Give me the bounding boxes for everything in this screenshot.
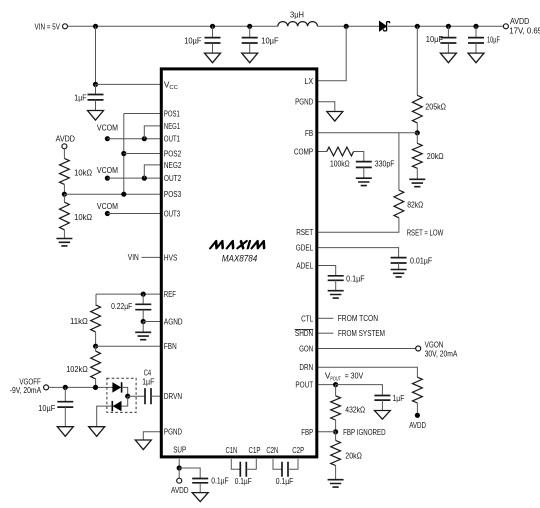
capacitor C4 1uF [145,388,151,404]
svg-text:102kΩ: 102kΩ [66,364,88,374]
wire SUP to AVDD [178,468,180,478]
svg-text:10µF: 10µF [487,35,500,45]
svg-text:PGND: PGND [295,97,313,107]
wire R1 stem top [416,26,418,95]
svg-text:OUT1: OUT1 [164,134,180,144]
capacitor C12 0.1uF [328,276,344,281]
svg-text:MAX8784: MAX8784 [222,254,258,265]
wire NEG2 loop [144,165,160,178]
ground C12 [328,291,344,298]
ground PGND left [135,440,151,450]
svg-text:82kΩ: 82kΩ [407,200,423,210]
wire VCC to pin [96,83,161,85]
wire rail diode to AVDD [388,25,504,27]
junction SUP node [177,465,182,470]
resistor R8 10k [60,158,70,184]
ground C15 [57,427,73,437]
diode D1 schottky [379,21,386,31]
svg-text:FROM TCON: FROM TCON [338,313,378,323]
ground C5 [205,53,221,63]
svg-text:30V, 20mA: 30V, 20mA [425,349,458,359]
svg-text:VCOM: VCOM [97,165,118,175]
junction rail-C6 [247,24,252,29]
capacitor C10 330pF [356,162,372,168]
junction rail-C8 [473,24,478,29]
junction AGND node [141,319,146,324]
svg-text:POS3: POS3 [164,189,182,199]
ground C6 [242,53,258,63]
svg-text:POS2: POS2 [164,149,182,159]
svg-text:FBP IGNORED: FBP IGNORED [343,427,386,437]
wire C6 gnd stem [249,43,251,53]
resistor R4 82k [394,190,404,218]
wire OUT3 [107,213,160,215]
svg-text:0.01µF: 0.01µF [410,255,432,265]
wire R10 stem top [95,294,97,305]
svg-text:OUT3: OUT3 [164,209,181,219]
wire PGND left [143,432,160,440]
wire C7 stem [447,26,449,37]
terminal VIN [63,24,68,29]
svg-text:HVS: HVS [164,252,178,262]
wire FB [318,132,418,134]
svg-text:VIN = 5V: VIN = 5V [35,21,61,31]
junction VGOFF-C15 [63,385,68,390]
junction VCC node [93,82,98,87]
ground C10 [356,178,372,185]
wire R9 stem top [63,194,65,202]
wire C14 to AGND [142,310,144,322]
wire R9 gnd stem [63,230,65,239]
capacitor C8 10uF [468,38,484,43]
wire R6 stem top [335,385,337,396]
junction rail-C7 [446,24,451,29]
svg-text:POUT: POUT [330,376,341,382]
wire SHDN [318,332,334,334]
wire C2P stem [288,459,298,469]
svg-text:NEG2: NEG2 [164,160,182,170]
wire LX to rail [318,26,347,81]
wire POS2 [124,153,160,155]
junction NEG1-OUT1 [142,136,147,141]
ground C8 [468,53,484,63]
junction FBP node [333,429,338,434]
wire D3 cathode to gnd [97,406,113,427]
ground R2 [409,179,425,186]
capacitor C7 10uF [440,38,456,43]
wire C12 gnd stem [335,280,337,290]
terminal AVDD SUP [177,478,182,483]
junction FB node [415,130,420,135]
wire R3 to C10 [354,152,364,162]
svg-text:100kΩ: 100kΩ [330,159,350,169]
box dashed diode pair [107,378,136,412]
wire C15 stem [64,387,66,401]
svg-text:3µH: 3µH [290,10,304,20]
svg-text:205kΩ: 205kΩ [425,101,446,111]
svg-text:POUT: POUT [295,380,313,390]
wire C9 stem bottom [95,100,97,111]
svg-text:= 30V: = 30V [345,371,364,381]
capacitor C15 10uF [57,402,73,407]
svg-text:11kΩ: 11kΩ [70,316,88,326]
wire NEG1 loop [144,126,160,139]
wire R10 to FBN [95,332,97,346]
capacitor C6 10uF [242,38,258,43]
wire FBP [318,431,336,433]
wire C9 stem top [95,84,97,94]
junction rail-R1 [415,24,420,29]
wire FB tee to R4 [398,133,400,190]
wire POUT to C13 [336,385,383,396]
wire C8 gnd stem [475,43,477,53]
wire rail inductor to diode [318,25,380,27]
wire C10 gnd stem [363,167,365,178]
svg-text:FBP: FBP [301,427,313,437]
wire C2N stem [273,459,282,469]
wire C4 to DRVN [151,395,160,397]
wire R11 to VGOFF [95,379,97,388]
capacitor C2 0.1uF [282,462,288,477]
wire FBN [96,345,160,347]
ground R9 [56,239,72,246]
svg-text:0.1µF: 0.1µF [276,476,294,486]
wire R7 stem top [335,432,337,441]
svg-text:PGND: PGND [164,427,182,437]
wire R8 to mid [63,184,65,194]
svg-text:AGND: AGND [164,317,183,327]
wire VGOFF line [49,386,113,388]
junction divider mid [62,192,67,197]
svg-text:10µF: 10µF [38,403,55,413]
wire OUT2 [107,177,160,179]
terminal AVDD left [62,144,67,149]
resistor R1 205k [412,95,422,123]
ground C7 [440,53,456,63]
svg-text:AVDD: AVDD [171,485,189,495]
wire CTL [318,317,334,319]
resistor R6 432k [331,396,341,420]
svg-text:VCOM: VCOM [97,201,118,211]
wire R2 gnd stem [416,168,418,179]
svg-text:CTL: CTL [301,313,313,323]
wire POS bus [123,114,125,195]
wire C5 gnd stem [212,43,214,53]
wire GON [318,348,416,350]
svg-text:NEG1: NEG1 [164,121,180,131]
wire R6 to FBP [335,420,337,432]
wire DRN [318,367,418,377]
svg-text:20kΩ: 20kΩ [427,151,444,161]
svg-text:C1N: C1N [225,445,237,455]
svg-text:RSET: RSET [296,227,313,237]
wire R7 gnd stem [335,466,337,480]
resistor R10 11k [91,305,101,332]
svg-text:DRN: DRN [299,362,313,372]
terminal VGOFF [44,385,49,390]
wire C14 stem [142,294,144,304]
svg-text:10kΩ: 10kΩ [74,168,92,178]
svg-text:RSET = LOW: RSET = LOW [407,227,444,237]
svg-text:C2N: C2N [266,445,278,455]
wire VIN rail left [68,25,278,27]
svg-text:432kΩ: 432kΩ [345,405,365,415]
svg-text:DRVN: DRVN [164,391,182,401]
junction bus POS3 [121,192,126,197]
svg-text:LX: LX [304,76,313,86]
wire R5 to AVDD dot [416,403,418,415]
capacitor C14 0.22uF [135,304,151,309]
inductor L1 3uH [278,22,318,27]
svg-text:0.1µF: 0.1µF [235,476,252,486]
svg-text:AVDD: AVDD [409,420,426,430]
svg-text:-9V, 20mA: -9V, 20mA [10,385,42,395]
svg-text:AVDD: AVDD [56,133,75,143]
svg-text:SUP: SUP [173,444,186,454]
svg-text:1µF: 1µF [393,393,405,403]
wire C1N stem [231,459,240,469]
ground PGND right [327,112,343,122]
junction rail-LX [344,24,349,29]
svg-text:C2P: C2P [292,445,304,455]
wire C5 stem [212,26,214,37]
capacitor C16 0.1uF [192,479,208,483]
wire PGND right [318,102,335,112]
wire C7 gnd stem [447,43,449,53]
wire GDEL [318,248,399,258]
terminal VGON [416,346,421,351]
resistor R9 10k [60,202,70,230]
svg-text:POS1: POS1 [164,109,180,119]
svg-text:COMP: COMP [294,147,314,157]
svg-text:CC: CC [169,85,177,91]
svg-text:VIN: VIN [128,252,139,262]
svg-text:FBN: FBN [164,341,177,351]
ground C11 [391,270,407,277]
svg-text:ADEL: ADEL [296,261,313,271]
junction VGOFF-R11 [93,385,98,390]
ground C13 [375,411,391,420]
svg-text:FROM SYSTEM: FROM SYSTEM [338,328,385,338]
ground AGND [135,332,151,339]
svg-text:10µF: 10µF [426,34,443,44]
svg-text:REF: REF [164,289,176,299]
wire node to C4 [128,395,145,397]
wire R4 to RSET [318,218,399,232]
capacitor C1 0.1uF [240,462,246,477]
junction POUT node [333,382,338,387]
svg-text:1µF: 1µF [142,377,154,387]
resistor R5 [413,377,423,403]
svg-text:10µF: 10µF [184,36,201,46]
svg-text:GON: GON [299,344,313,354]
wire HVS [142,256,161,258]
svg-text:330pF: 330pF [375,159,395,169]
ground C16 [192,493,208,502]
wire C15 gnd stem [64,407,66,427]
junction bus POS2 [121,151,126,156]
svg-text:C1P: C1P [249,445,261,455]
svg-text:1µF: 1µF [74,92,86,102]
wire C16 gnd stem [199,483,201,493]
junction NEG2-OUT2 [142,176,147,181]
wire AGND gnd stem [142,322,144,333]
svg-text:VCOM: VCOM [97,123,118,133]
terminal AVDD out [503,24,508,29]
wire SUP to C16 [179,468,200,479]
wire AGND [143,321,160,323]
svg-text:GDEL: GDEL [296,243,314,253]
capacitor C9 1uF [88,95,104,100]
node diode junction [125,394,130,399]
diode D2 top [112,382,121,392]
node VCOM 3 [105,211,110,216]
svg-text:OUT2: OUT2 [164,173,182,183]
svg-text:0.1µF: 0.1µF [211,475,229,485]
svg-text:0.1µF: 0.1µF [346,273,365,283]
svg-text:20kΩ: 20kΩ [345,450,362,460]
wire ADEL [318,266,336,276]
node VCOM 2 [105,176,110,181]
wire POS1 [124,113,160,115]
wire R11 stem top [95,346,97,351]
wire D2 cathode to node [122,387,128,396]
resistor R3 100k [327,147,354,156]
wire REF [96,293,160,295]
resistor R2 20k [412,143,422,168]
svg-text:10kΩ: 10kΩ [74,212,92,222]
svg-text:10µF: 10µF [261,36,278,46]
wire R1 to FB [416,123,418,133]
logo MAXIM [210,241,266,248]
wire C1P stem [246,459,256,469]
wire C11 gnd stem [398,263,400,270]
ground VCC cap [88,111,104,121]
svg-text:0.22µF: 0.22µF [111,301,132,311]
junction REF-C14 [141,292,146,297]
wire D3 anode to node [122,396,128,406]
ground D3 [89,427,105,437]
capacitor C11 0.01uF [391,258,407,263]
capacitor C5 10uF [205,38,221,43]
node VCOM 1 [105,136,110,141]
resistor R11 102k [91,351,101,379]
op-amp U1 MAX8784 body [161,69,316,457]
wire COMP [318,151,327,153]
wire VCC drop [95,26,97,84]
wire OUT1 [107,138,160,140]
resistor R7 20k [331,440,341,465]
wire POS3 [64,193,160,195]
ground R7 [328,480,344,487]
wire C13 gnd stem [381,400,383,410]
wire SUP stem [178,459,180,468]
junction rail-C5 [210,24,215,29]
junction rail-VCC [93,24,98,29]
wire R2 stem top [416,133,418,144]
svg-text:17V, 0.65A: 17V, 0.65A [509,25,540,35]
wire POUT [318,384,336,386]
wire C8 stem [475,26,477,37]
svg-text:FB: FB [305,128,314,138]
wire R8 stem top [63,149,65,159]
capacitor C13 1uF [374,396,390,401]
wire C6 stem [249,26,251,37]
diode D3 bottom [113,401,122,411]
node AVDD DRN [415,413,420,418]
junction FBN node [93,344,98,349]
